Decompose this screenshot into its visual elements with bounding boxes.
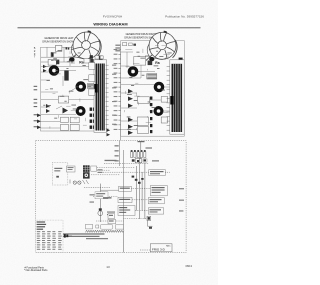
note text block	[62, 233, 109, 239]
junction marks	[132, 159, 146, 162]
capacitor C1	[51, 52, 54, 57]
wire code labels column	[112, 65, 116, 125]
wire labels texture right	[125, 45, 172, 130]
inline label box L1	[149, 170, 166, 176]
wire run 2	[103, 171, 149, 173]
connector J3 stem	[140, 142, 142, 152]
switch S1	[48, 60, 56, 66]
right unit caption	[124, 33, 158, 39]
junction side label	[152, 160, 159, 161]
stem side label	[146, 147, 153, 148]
switch S0b	[43, 69, 47, 72]
wire	[132, 199, 148, 201]
connector block dark A	[83, 165, 90, 172]
node 5237 label	[34, 46, 36, 59]
switch cluster	[118, 206, 135, 216]
stem label	[138, 141, 145, 142]
buzzer labels	[107, 212, 115, 213]
lamp DS2	[78, 181, 81, 184]
fan hub shadow right	[149, 57, 154, 61]
inline label box L3	[150, 186, 167, 196]
lamp DS1	[73, 181, 76, 184]
inline label box L2	[119, 186, 132, 191]
wire	[148, 221, 153, 227]
fan top tab	[87, 30, 90, 32]
fan hub shadow	[69, 57, 74, 61]
wire	[91, 168, 135, 175]
wire	[135, 210, 148, 212]
blower fan left	[69, 32, 101, 62]
tick marks	[70, 180, 89, 185]
motor winding M1	[50, 67, 57, 74]
connector box B	[91, 166, 97, 171]
solenoid L1	[64, 70, 68, 80]
terminal pairs	[90, 108, 96, 129]
relay K2	[58, 96, 68, 103]
wire labels texture left	[43, 49, 91, 129]
misc top boxes right unit	[123, 43, 127, 46]
left unit enclosure box	[41, 47, 99, 131]
label row y198	[103, 197, 112, 198]
wire	[165, 171, 170, 173]
connector J3 pins	[131, 152, 146, 158]
switch S0a	[43, 65, 47, 68]
wire	[140, 157, 142, 163]
header rule	[18, 27, 201, 29]
switch S3	[63, 108, 69, 114]
inline label box L5	[148, 208, 163, 214]
switch column right	[128, 89, 133, 135]
thermostat T1	[56, 60, 59, 65]
motor winding M3	[77, 108, 84, 115]
wire mesh right	[121, 52, 172, 130]
fan top tab right	[163, 31, 166, 33]
resistor R1 hatched	[147, 74, 157, 79]
terminal strip TB2	[167, 60, 185, 134]
motor winding M5	[155, 83, 162, 90]
heater element HE1 zigzag	[86, 230, 125, 232]
wire dashed	[93, 196, 118, 198]
connector block dark C with eyelet	[83, 172, 90, 178]
wire	[41, 67, 94, 72]
capacitor C2	[148, 61, 153, 66]
wire	[140, 249, 150, 251]
motor winding M4	[129, 68, 136, 75]
harness boundary dashed box	[36, 141, 186, 253]
left unit caption	[42, 37, 76, 43]
buzzer	[98, 208, 103, 215]
wire run 3	[84, 187, 110, 189]
fan mount right	[179, 58, 183, 63]
wire dotted vertical	[123, 150, 125, 230]
connector row boxes	[67, 166, 76, 172]
bus wire taps	[132, 176, 144, 184]
below bar terminals	[107, 129, 111, 137]
vertical bus wires	[137, 152, 145, 219]
timer block dashed	[52, 163, 68, 186]
part number box	[150, 244, 172, 252]
bar side boxes	[89, 63, 95, 96]
connector stub	[147, 216, 151, 220]
motor winding M2	[77, 83, 84, 90]
motor winding M6	[155, 108, 162, 115]
scan noise overlay	[0, 0, 1, 1]
pin stubs	[106, 65, 109, 129]
thermal fuse block	[88, 83, 94, 88]
wire	[123, 231, 125, 252]
stacked boxes left	[108, 214, 116, 224]
inline label box L0	[95, 192, 108, 199]
fan mount	[99, 56, 103, 61]
vertical feed wire	[100, 184, 102, 222]
wire	[41, 47, 93, 66]
inline label box L4	[148, 198, 164, 204]
wire	[68, 235, 72, 237]
wire tag	[90, 202, 95, 203]
terminal pairs right	[150, 97, 152, 134]
relay K1	[55, 46, 62, 52]
component boxes right	[137, 97, 167, 134]
wire run 1	[104, 162, 149, 164]
heater element boxes	[61, 117, 80, 130]
junction block	[135, 159, 142, 163]
wire	[131, 188, 150, 190]
blower fan right	[145, 32, 177, 62]
wire dotted horizontal	[124, 218, 148, 220]
component row above heater	[86, 224, 124, 229]
relay K3	[134, 57, 146, 66]
connector pin column J2	[114, 43, 136, 141]
pigtail line	[119, 141, 121, 166]
plug P1	[64, 234, 69, 237]
wire	[101, 189, 119, 191]
wire color legend table	[36, 220, 63, 252]
right unit enclosure box	[121, 41, 185, 137]
wire tag labels	[98, 169, 103, 170]
terminal strip TB1	[90, 55, 107, 132]
stub mark	[149, 227, 152, 229]
wire tag	[90, 194, 95, 195]
rotated pin note	[115, 45, 120, 46]
wire dotted	[96, 220, 124, 222]
wire mesh left	[41, 67, 94, 129]
contact marks	[66, 47, 70, 49]
right margin tags	[179, 188, 184, 211]
left edge pin labels	[34, 86, 38, 127]
misc boxes under fan	[84, 59, 90, 63]
left edge terminal symbols	[37, 114, 41, 130]
switch S2	[46, 104, 50, 113]
